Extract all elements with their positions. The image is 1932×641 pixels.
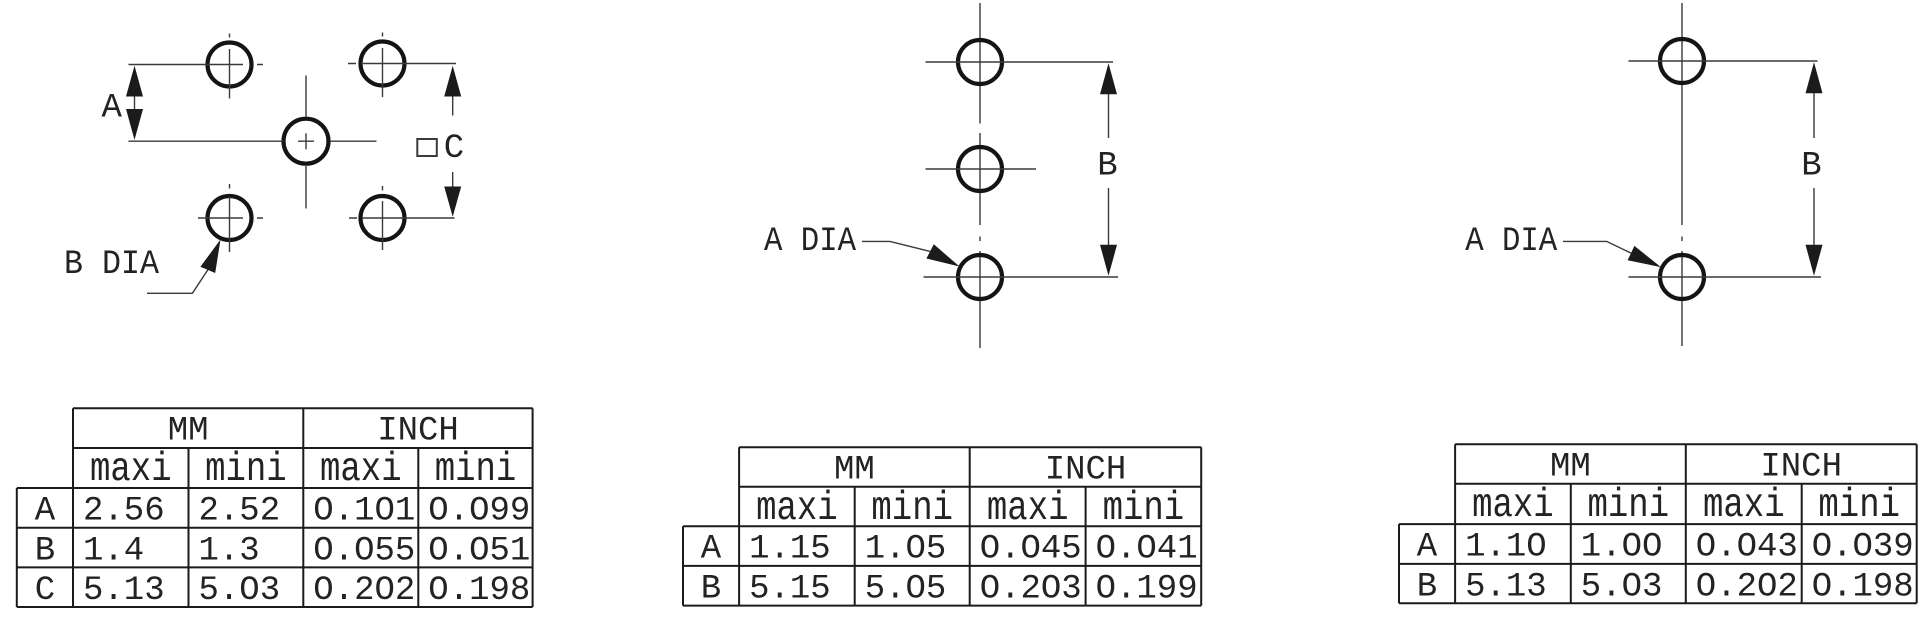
svg-text:O.O41: O.O41 [1096, 531, 1198, 569]
svg-text:mini: mini [205, 447, 287, 493]
svg-text:A: A [35, 493, 56, 531]
svg-text:1.1O: 1.1O [1465, 529, 1547, 567]
svg-text:O.O55: O.O55 [313, 532, 415, 570]
svg-text:C: C [444, 130, 464, 168]
table 2 (middle view dimensions) [683, 447, 1201, 605]
hole H9 top (right view) [1629, 39, 1818, 83]
svg-text:O.198: O.198 [428, 572, 530, 610]
hole H5 bottom-right (left view) [349, 186, 455, 250]
vertical centerline (right view) [1681, 3, 1683, 346]
svg-text:maxi: maxi [987, 486, 1069, 532]
svg-text:MM: MM [1550, 448, 1591, 486]
svg-text:O.O43: O.O43 [1696, 529, 1798, 567]
hole H2 top-right (left view) [348, 33, 456, 98]
svg-text:A: A [1417, 529, 1438, 567]
svg-text:maxi: maxi [90, 447, 172, 493]
svg-text:A: A [101, 89, 122, 127]
svg-text:1.O5: 1.O5 [865, 531, 947, 569]
dimension A (left view) [101, 66, 143, 140]
svg-text:maxi: maxi [1472, 483, 1554, 529]
svg-text:A: A [701, 531, 722, 569]
svg-text:maxi: maxi [1703, 483, 1785, 529]
svg-text:O.O45: O.O45 [980, 531, 1082, 569]
svg-text:B: B [1417, 568, 1437, 606]
svg-text:INCH: INCH [377, 412, 459, 450]
svg-text:5.O3: 5.O3 [1581, 568, 1663, 606]
svg-text:O.198: O.198 [1812, 568, 1914, 606]
svg-text:B: B [1801, 147, 1821, 185]
svg-text:A DIA: A DIA [764, 223, 857, 261]
hole H4 bottom-left (left view) [198, 184, 263, 252]
svg-text:O.2O3: O.2O3 [980, 570, 1082, 608]
svg-text:C: C [35, 572, 55, 610]
svg-text:5.13: 5.13 [83, 572, 165, 610]
svg-text:5.O3: 5.O3 [199, 572, 281, 610]
svg-text:B: B [1097, 147, 1117, 185]
svg-text:5.13: 5.13 [1465, 568, 1547, 606]
dimension C (left view, square C) [417, 66, 464, 217]
hole H10 bottom (right view) [1629, 255, 1822, 299]
hole H8 bottom (middle view) [924, 255, 1119, 299]
vertical centerline (middle view) [979, 3, 981, 348]
hole H1 top-left (left view) [129, 34, 264, 99]
svg-text:1.3: 1.3 [199, 532, 260, 570]
svg-text:mini: mini [1103, 486, 1185, 532]
hole H7 middle (middle view) [926, 147, 1037, 191]
hole H6 top (middle view) [926, 40, 1114, 84]
svg-text:5.O5: 5.O5 [865, 570, 947, 608]
svg-text:O.2O2: O.2O2 [313, 572, 415, 610]
dimension B (right view) [1801, 62, 1822, 276]
svg-text:2.52: 2.52 [199, 493, 281, 531]
svg-text:B: B [701, 570, 721, 608]
svg-text:maxi: maxi [320, 447, 402, 493]
table 3 (right view dimensions) [1399, 444, 1917, 603]
table 1 (left view dimensions) [17, 408, 533, 607]
svg-text:mini: mini [1818, 483, 1900, 529]
svg-text:O.199: O.199 [1096, 570, 1198, 608]
svg-text:B: B [35, 532, 55, 570]
leader B DIA (left view) [64, 240, 221, 294]
svg-text:1.4: 1.4 [83, 532, 144, 570]
svg-text:2.56: 2.56 [83, 493, 165, 531]
svg-text:O.O39: O.O39 [1812, 529, 1914, 567]
svg-text:O.O51: O.O51 [428, 532, 530, 570]
leader A DIA (right view) [1465, 223, 1661, 267]
svg-text:INCH: INCH [1045, 451, 1127, 489]
svg-text:maxi: maxi [756, 486, 838, 532]
svg-text:MM: MM [168, 412, 209, 450]
svg-text:1.OO: 1.OO [1581, 529, 1663, 567]
svg-text:O.O99: O.O99 [428, 493, 530, 531]
svg-text:MM: MM [834, 451, 875, 489]
svg-text:B DIA: B DIA [64, 246, 160, 284]
svg-text:mini: mini [871, 486, 953, 532]
hole H3 center (left view) [129, 76, 377, 209]
leader A DIA (middle view) [764, 223, 960, 267]
svg-text:1.15: 1.15 [749, 531, 831, 569]
svg-text:A DIA: A DIA [1465, 223, 1558, 261]
svg-text:mini: mini [435, 447, 517, 493]
svg-text:O.1O1: O.1O1 [313, 493, 415, 531]
svg-text:5.15: 5.15 [749, 570, 831, 608]
svg-text:INCH: INCH [1760, 448, 1842, 486]
svg-text:mini: mini [1587, 483, 1669, 529]
svg-text:O.2O2: O.2O2 [1696, 568, 1798, 606]
dimension B (middle view) [1097, 63, 1117, 276]
